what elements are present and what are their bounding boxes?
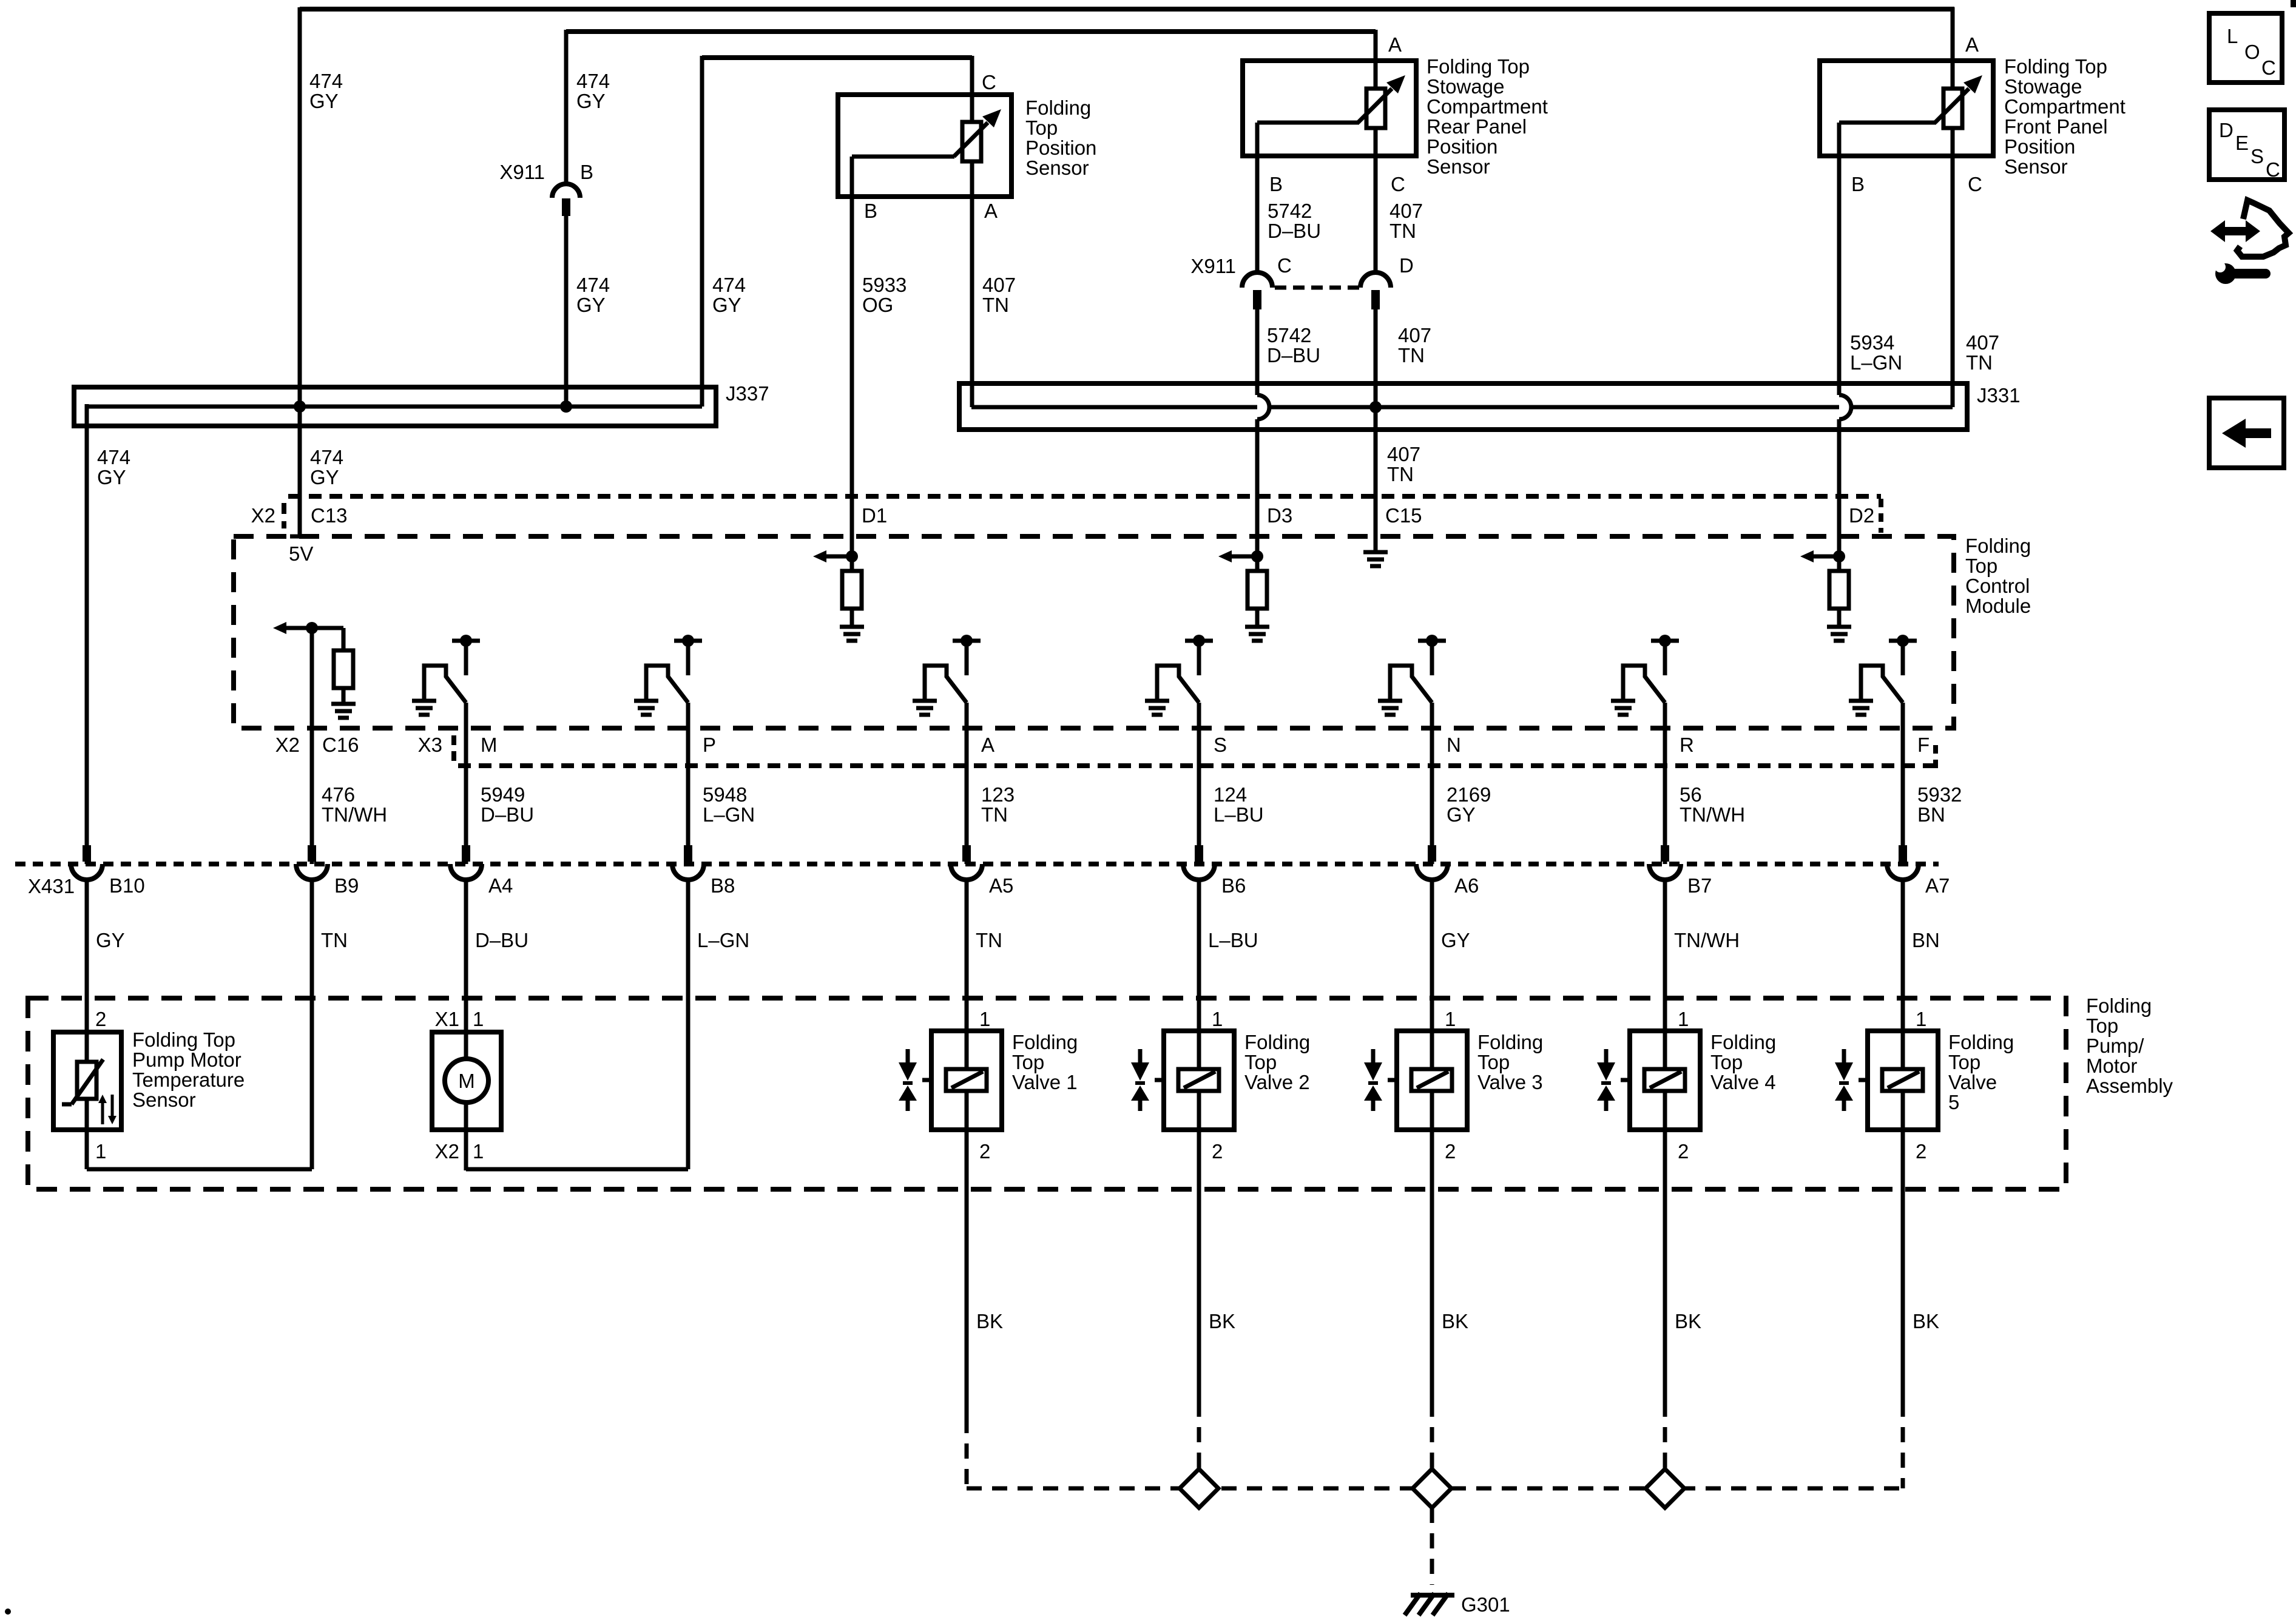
svg-text:Folding Top: Folding Top [2004, 55, 2107, 78]
svg-text:Folding: Folding [1710, 1031, 1776, 1053]
svg-text:X2: X2 [435, 1140, 459, 1163]
module driver switch with ground for output A [913, 635, 981, 715]
hydraulic valve port symbol (valve 4) [1597, 1049, 1630, 1111]
svg-text:Folding: Folding [1244, 1031, 1310, 1053]
label A (module pin) [981, 734, 994, 756]
svg-text:124: 124 [1214, 783, 1247, 806]
wire label 5949 D–BU [481, 783, 534, 826]
svg-text:B6: B6 [1221, 874, 1246, 897]
svg-text:A7: A7 [1925, 874, 1950, 897]
svg-text:2: 2 [979, 1140, 990, 1163]
svg-text:Front Panel: Front Panel [2004, 115, 2108, 138]
svg-text:474: 474 [712, 274, 746, 296]
label B8 (X431 pin) [711, 874, 735, 897]
wire color label TN below X431 [321, 929, 348, 951]
label G301 [1461, 1593, 1510, 1616]
svg-text:TN: TN [1398, 344, 1425, 366]
svg-text:L–GN: L–GN [697, 929, 749, 951]
svg-text:D: D [2219, 119, 2234, 141]
svg-text:123: 123 [981, 783, 1015, 806]
svg-text:N: N [1447, 734, 1461, 756]
connector X431 pin B8 [672, 845, 704, 880]
svg-text:TN/WH: TN/WH [1680, 803, 1745, 826]
wire 124 L–BU from module to X431 [1197, 703, 1201, 864]
label X911 (at pins C/D) [1190, 255, 1236, 277]
connector X431 pin B6 [1183, 845, 1215, 880]
wire 407 TN from position sensor A to J331 [970, 197, 974, 407]
label A5 (X431 pin) [989, 874, 1013, 897]
svg-text:B7: B7 [1687, 874, 1712, 897]
label X2 (top connector) [251, 504, 275, 527]
svg-text:F: F [1917, 734, 1930, 756]
svg-text:C: C [2266, 158, 2280, 181]
connector X431 pin B9 [296, 845, 328, 880]
component name text Folding Top Pump Motor Temperature Sensor [132, 1028, 245, 1111]
svg-text:X3: X3 [418, 734, 442, 756]
pin label 1 (valve 3) [1445, 1008, 1456, 1030]
wire label 474 GY on wire into J337 right end [712, 274, 746, 316]
svg-text:G301: G301 [1461, 1593, 1510, 1616]
label B (front panel sensor pin) [1851, 173, 1865, 195]
svg-text:474: 474 [576, 70, 610, 92]
label A (position sensor pin) [984, 200, 998, 222]
splice diamond on ground bus (left) [1180, 1469, 1218, 1508]
svg-text:Top: Top [1025, 116, 1058, 139]
component box Folding Top Stowage Compartment Front Panel Position Sensor [1820, 61, 1993, 156]
svg-text:1: 1 [1916, 1008, 1926, 1030]
svg-text:Compartment: Compartment [1427, 95, 1548, 118]
svg-text:Compartment: Compartment [2004, 95, 2125, 118]
potentiometer element (rear panel sensor) [1358, 75, 1405, 156]
svg-text:A: A [984, 200, 998, 222]
label A (front panel sensor pin) [1965, 33, 1979, 56]
wire label 56 TN/WH [1680, 783, 1745, 826]
label R (module pin) [1680, 734, 1694, 756]
svg-text:1: 1 [1212, 1008, 1223, 1030]
svg-text:C: C [2261, 56, 2276, 79]
LOC navigation box icon [2209, 13, 2282, 83]
svg-text:X431: X431 [28, 875, 75, 897]
svg-text:474: 474 [97, 446, 130, 468]
svg-text:GY: GY [576, 90, 606, 112]
module input circuit at D2: signal arrow, pull-down resistor and ground [1800, 550, 1851, 641]
wiper wire inside front panel sensor [1839, 123, 1936, 156]
label X431 [28, 875, 75, 897]
component box Folding Top Valve 1 [931, 1031, 1002, 1130]
svg-text:A6: A6 [1454, 874, 1479, 897]
svg-text:M: M [458, 1070, 475, 1092]
svg-text:D1: D1 [862, 504, 887, 527]
wire 123 TN from module to X431 [965, 703, 969, 864]
svg-text:TN/WH: TN/WH [1674, 929, 1740, 951]
dashed ground wire from valve 4 [1663, 1402, 1667, 1488]
svg-text:407: 407 [1387, 443, 1420, 465]
wire from X431 to Folding Top Valve 2 pin 1 [1197, 878, 1201, 1069]
svg-text:TN: TN [976, 929, 1002, 951]
svg-text:GY: GY [576, 294, 606, 316]
top rail 2 wire 474 GY (X911 B up and across to rear sensor A) [566, 30, 1376, 184]
svg-text:476: 476 [322, 783, 355, 806]
wire 476 TN/WH from module C16 to X431 B9 [310, 628, 314, 864]
pin label 2 (valve 2) [1212, 1140, 1223, 1163]
wire label 474 GY at rail1 drop [309, 70, 343, 112]
label J337 [726, 382, 769, 405]
wire TN from X431 B9 down [310, 878, 314, 1169]
svg-text:D: D [1399, 254, 1414, 277]
dashed connector link X911 C-D [1275, 286, 1359, 290]
svg-text:BK: BK [1675, 1310, 1701, 1332]
svg-text:2169: 2169 [1447, 783, 1491, 806]
wire color label BN below X431 [1912, 929, 1940, 951]
label F (module pin) [1917, 734, 1930, 756]
svg-text:Sensor: Sensor [1427, 155, 1490, 178]
svg-text:D–BU: D–BU [1268, 220, 1321, 242]
module input circuit at D3: signal arrow, pull-down resistor and ground [1218, 550, 1269, 641]
wire 407 TN from front sensor C to J331 right end [1951, 156, 1955, 407]
svg-text:B10: B10 [109, 874, 145, 897]
hydraulic valve port symbol (valve 1) [899, 1049, 931, 1111]
wire label 407 TN (above X911 D) [1389, 200, 1423, 242]
module input circuit at D1: signal arrow, pull-down resistor and ground [813, 550, 864, 641]
svg-text:L: L [2227, 25, 2238, 47]
svg-text:B9: B9 [334, 874, 359, 897]
svg-text:A4: A4 [488, 874, 513, 897]
junction dot J331 at 407 TN (C15 wire) [1369, 401, 1382, 413]
svg-text:B: B [864, 200, 877, 222]
svg-text:GY: GY [1447, 803, 1476, 826]
component name text Folding Top Valve 4 [1710, 1031, 1776, 1093]
svg-text:Position: Position [1025, 137, 1096, 159]
wire GY from X431 B10 to temperature sensor pin 2 [85, 878, 89, 1062]
label A7 (X431 pin) [1925, 874, 1950, 897]
svg-text:C: C [982, 71, 996, 93]
wire label 476 TN/WH [322, 783, 387, 826]
connector X431 pin B7 [1649, 845, 1681, 880]
svg-text:5742: 5742 [1267, 324, 1311, 346]
label D3 (module pin) [1267, 504, 1292, 527]
connector X431 pin A4 [450, 845, 482, 880]
page artifact mark top-right [2291, 0, 2296, 7]
dashed ground wire from valve 2 [1197, 1402, 1201, 1488]
DESC navigation box icon [2209, 110, 2284, 181]
wire color label TN/WH below X431 [1674, 929, 1740, 951]
wire label BK (valve 3) [1442, 1310, 1468, 1332]
wire label 474 GY on wire from X911 B to J337 [576, 274, 610, 316]
component name text Folding Top Position Sensor [1025, 96, 1096, 179]
connector X2/C13 dashed separator [282, 503, 286, 528]
svg-text:L–GN: L–GN [703, 803, 755, 826]
motor M symbol [445, 1059, 488, 1102]
wire label 474 GY at rail2 drop [576, 70, 610, 112]
svg-text:5934: 5934 [1850, 331, 1894, 354]
wire BK from valve 1 pin 2 down [965, 1130, 969, 1418]
svg-text:A: A [1388, 33, 1402, 56]
svg-text:BN: BN [1912, 929, 1940, 951]
svg-text:B: B [580, 161, 593, 183]
wire label 5948 L–GN [703, 783, 755, 826]
svg-text:X911: X911 [1190, 255, 1236, 277]
label X3 (bottom connector) [418, 734, 442, 756]
module bottom connector X2 dashed separator and labels X2 C16 [275, 734, 359, 756]
wire color label L–BU below X431 [1208, 929, 1258, 951]
wire hop of 5742 D-BU over J331 bus [1257, 395, 1269, 419]
wire label 2169 GY [1447, 783, 1491, 826]
pin A wire into front panel sensor [1951, 7, 1955, 91]
module driver switch with ground for output M [412, 635, 480, 715]
module driver switch with ground for output N [1378, 635, 1446, 715]
svg-text:J331: J331 [1977, 384, 2021, 407]
label C (front panel sensor pin) [1968, 173, 1982, 195]
svg-text:X1: X1 [435, 1008, 459, 1030]
wire label 124 L–BU [1214, 783, 1264, 826]
pin A wire into rear panel sensor [1374, 30, 1378, 91]
pin label 1 (valve 4) [1678, 1008, 1689, 1030]
svg-text:R: R [1680, 734, 1694, 756]
component name text Folding Top Valve 5 [1948, 1031, 2014, 1113]
component box Folding Top Valve 2 [1164, 1031, 1234, 1130]
wire D-BU from X431 A4 to pump motor X1-1 [464, 878, 468, 1170]
svg-text:S: S [2250, 145, 2264, 167]
svg-text:C: C [1391, 173, 1405, 195]
svg-text:D–BU: D–BU [1267, 344, 1320, 366]
svg-text:407: 407 [1398, 324, 1431, 346]
wire 407 TN from rear sensor C to X911 D [1374, 156, 1378, 273]
svg-text:1: 1 [473, 1140, 484, 1163]
svg-text:TN: TN [981, 803, 1008, 826]
label A4 (X431 pin) [488, 874, 513, 897]
svg-text:B: B [1269, 173, 1283, 195]
connector X431 dashed line [15, 862, 1939, 866]
wire BK from valve 3 pin 2 down [1430, 1130, 1434, 1402]
wire 5933 OG from position sensor B to module D1 [850, 197, 854, 556]
connector X911 pin D [1360, 272, 1391, 309]
label X911 (at pin B) [499, 161, 545, 183]
wire BK from valve 4 pin 2 down [1663, 1130, 1667, 1402]
svg-text:TN: TN [1389, 220, 1416, 242]
svg-text:Control: Control [1965, 575, 2030, 597]
splice diamond on ground bus (middle) [1413, 1469, 1451, 1508]
svg-text:1: 1 [1445, 1008, 1456, 1030]
component box Folding Top Pump Motor Temperature Sensor [53, 1032, 121, 1130]
assembly name text Folding Top Pump/Motor Assembly [2086, 994, 2173, 1097]
svg-text:Folding Top: Folding Top [1427, 55, 1530, 78]
dashed wire from middle diamond to ground G301 [1430, 1508, 1434, 1585]
svg-text:1: 1 [979, 1008, 990, 1030]
svg-text:407: 407 [1966, 331, 1999, 354]
wire from X431 to Folding Top Valve 4 pin 1 [1663, 878, 1667, 1069]
wire 5932 BN from module to X431 [1901, 703, 1905, 864]
svg-text:S: S [1214, 734, 1227, 756]
svg-text:M: M [481, 734, 498, 756]
svg-text:Position: Position [1427, 135, 1497, 158]
wire from X431 to Folding Top Valve 3 pin 1 [1430, 878, 1434, 1069]
wire 5949 D–BU from module to X431 [464, 703, 468, 864]
svg-text:D–BU: D–BU [481, 803, 534, 826]
svg-text:407: 407 [982, 274, 1016, 296]
solenoid element (valve 4) [1644, 1069, 1685, 1130]
component box Folding Top Valve 5 [1868, 1031, 1938, 1130]
component box Folding Top Position Sensor [838, 95, 1011, 197]
svg-text:A5: A5 [989, 874, 1013, 897]
hydraulic valve port symbol (valve 2) [1131, 1049, 1164, 1111]
svg-text:GY: GY [310, 466, 339, 488]
label J331 [1977, 384, 2021, 407]
label A (rear panel sensor pin) [1388, 33, 1402, 56]
svg-text:Valve 2: Valve 2 [1244, 1071, 1310, 1093]
svg-text:J337: J337 [726, 382, 769, 405]
Folding Top Control Module dashed outline [234, 536, 1954, 728]
svg-text:Sensor: Sensor [2004, 155, 2068, 178]
label C13 (module pin) [311, 504, 348, 527]
svg-text:Folding: Folding [1012, 1031, 1078, 1053]
solenoid element (valve 2) [1178, 1069, 1219, 1130]
wire color label GY below X431 [96, 929, 125, 951]
svg-text:Top: Top [1012, 1051, 1044, 1073]
label B6 (X431 pin) [1221, 874, 1246, 897]
label P (module pin) [703, 734, 716, 756]
wire color label L–GN below X431 [697, 929, 749, 951]
wire label 407 TN (below position sensor A) [982, 274, 1016, 316]
wire 5934 L-GN from front sensor B to module D2 [1837, 156, 1842, 556]
svg-text:Top: Top [1965, 555, 1997, 577]
splice pack J331 internal bus wire [971, 405, 1953, 410]
svg-text:BK: BK [1913, 1310, 1939, 1332]
label B7 (X431 pin) [1687, 874, 1712, 897]
svg-text:D2: D2 [1849, 504, 1874, 527]
wire label BK (valve 2) [1209, 1310, 1235, 1332]
svg-text:474: 474 [310, 446, 343, 468]
module driver switch with ground for output S [1145, 635, 1213, 715]
svg-text:TN: TN [1387, 463, 1414, 485]
svg-text:1: 1 [95, 1140, 106, 1163]
svg-text:Valve 3: Valve 3 [1477, 1071, 1543, 1093]
dashed ground wire from valve 5 [1901, 1402, 1905, 1488]
wire 5742 D-BU from X911 C to module D3 [1255, 309, 1260, 556]
label M (module pin) [481, 734, 498, 756]
wire color label D–BU below X431 [475, 929, 528, 951]
component name text Folding Top Valve 3 [1477, 1031, 1543, 1093]
wire label 5932 BN [1917, 783, 1962, 826]
svg-text:Temperature: Temperature [132, 1068, 245, 1091]
svg-text:Pump Motor: Pump Motor [132, 1048, 241, 1071]
svg-text:56: 56 [1680, 783, 1702, 806]
label B10 (X431 pin) [109, 874, 145, 897]
svg-text:Sensor: Sensor [1025, 157, 1089, 179]
wire 407 TN from J331 down to module C15 [1374, 407, 1378, 549]
module driver switch with ground for output F [1849, 635, 1917, 715]
label A6 (X431 pin) [1454, 874, 1479, 897]
label D (X911 pin) [1399, 254, 1414, 277]
svg-text:Pump/: Pump/ [2086, 1035, 2144, 1057]
internal 5V supply label at C13 [289, 542, 313, 565]
svg-text:Valve 4: Valve 4 [1710, 1071, 1776, 1093]
potentiometer element (front panel sensor) [1935, 75, 1982, 156]
wire from pump motor X2-1 to B8 wire [466, 1130, 688, 1169]
wire label 474 GY (below J337 left) [97, 446, 130, 488]
pin label 2 (valve 1) [979, 1140, 990, 1163]
svg-text:Top: Top [2086, 1014, 2118, 1037]
svg-text:Folding Top: Folding Top [132, 1028, 235, 1051]
svg-text:2: 2 [1678, 1140, 1689, 1163]
svg-text:O: O [2244, 41, 2260, 63]
solenoid element (valve 1) [946, 1069, 987, 1130]
svg-text:Module: Module [1965, 595, 2031, 617]
svg-text:Top: Top [1477, 1051, 1510, 1073]
wire hop of 5934 L-GN over J331 bus [1839, 395, 1851, 419]
svg-text:Rear Panel: Rear Panel [1427, 115, 1527, 138]
label S (module pin) [1214, 734, 1227, 756]
svg-text:C15: C15 [1385, 504, 1422, 527]
hydraulic valve port symbol (valve 3) [1364, 1049, 1397, 1111]
wire label BK (valve 4) [1675, 1310, 1701, 1332]
connector X911 pin C [1242, 272, 1272, 309]
connector X431 pin B10 [71, 845, 103, 880]
splice diamond on ground bus (right) [1646, 1469, 1684, 1508]
svg-text:TN: TN [982, 294, 1009, 316]
svg-text:Valve 1: Valve 1 [1012, 1071, 1078, 1093]
dashed ground bus at bottom [967, 1487, 1903, 1491]
back arrow navigation box icon [2209, 398, 2284, 468]
component name text Folding Top Stowage Compartment Front Panel Position Sensor [2004, 55, 2125, 178]
svg-text:BK: BK [1209, 1310, 1235, 1332]
svg-text:5933: 5933 [862, 274, 907, 296]
component box folding top pump motor [432, 1032, 501, 1130]
wire 407 TN from X911 D to J331 [1374, 309, 1378, 407]
label C15 (module pin) [1385, 504, 1422, 527]
label D1 (module pin) [862, 504, 887, 527]
wire 2169 GY from module to X431 [1430, 703, 1434, 864]
wire label 5742 D-BU (above X911 C) [1268, 200, 1321, 242]
wire BK from valve 2 pin 2 down [1197, 1130, 1201, 1402]
svg-text:Position: Position [2004, 135, 2075, 158]
svg-text:BN: BN [1917, 803, 1945, 826]
svg-text:407: 407 [1389, 200, 1423, 222]
wire label 123 TN [981, 783, 1015, 826]
svg-text:Valve: Valve [1948, 1071, 1997, 1093]
svg-text:E: E [2235, 132, 2249, 154]
svg-text:A: A [981, 734, 994, 756]
pin label 1 (valve 1) [979, 1008, 990, 1030]
svg-text:A: A [1965, 33, 1979, 56]
wire label BK (valve 5) [1913, 1310, 1939, 1332]
svg-text:B8: B8 [711, 874, 735, 897]
wire label 5934 L-GN [1850, 331, 1902, 374]
pin label X1 1 (pump motor top) [435, 1008, 484, 1030]
wire from X431 to Folding Top Valve 1 pin 1 [965, 878, 969, 1069]
wire 474 GY from J337 left end down to X431 B10 [85, 404, 89, 864]
component box Folding Top Valve 4 [1630, 1031, 1700, 1130]
dashed ground wire from valve 3 [1430, 1402, 1434, 1488]
svg-text:Top: Top [1948, 1051, 1980, 1073]
wire 474 GY from J337 down to module C13 [290, 408, 309, 536]
solenoid element (valve 3) [1411, 1069, 1452, 1130]
label B (position sensor pin) [864, 200, 877, 222]
module name text Folding Top Control Module [1965, 535, 2031, 617]
splice pack J337 internal bus wire [86, 405, 702, 409]
pin label 2 (valve 3) [1445, 1140, 1456, 1163]
wiper wire inside position sensor [852, 157, 954, 197]
wire from temperature sensor pin 1 to B9 wire [87, 1099, 312, 1169]
svg-text:BK: BK [976, 1310, 1003, 1332]
wire label 474 GY (below J337 at C13) [310, 446, 343, 488]
label B (X911 pin) [580, 161, 593, 183]
svg-text:GY: GY [712, 294, 741, 316]
svg-text:L–BU: L–BU [1208, 929, 1258, 951]
svg-text:5V: 5V [289, 542, 313, 565]
pin C wire into position sensor [970, 56, 974, 124]
wire 5948 L–GN from module to X431 [686, 703, 690, 864]
svg-text:5949: 5949 [481, 783, 525, 806]
